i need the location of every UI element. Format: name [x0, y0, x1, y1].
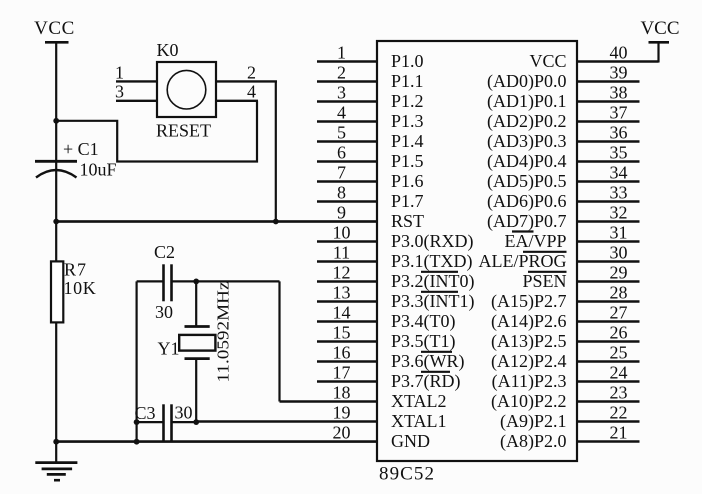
- wire RST net horizontal (rail to pin 9): [56, 220, 377, 222]
- svg-text:P1.5: P1.5: [391, 151, 424, 171]
- pin 31 EA/VPP: [504, 223, 639, 252]
- overline EA (pin 31): [512, 230, 534, 232]
- svg-text:34: 34: [610, 163, 628, 183]
- svg-text:GND: GND: [391, 431, 430, 451]
- svg-text:Y1: Y1: [158, 339, 180, 359]
- svg-text:39: 39: [610, 63, 628, 83]
- svg-text:30: 30: [175, 403, 193, 423]
- ground symbol: [35, 463, 77, 481]
- svg-text:37: 37: [610, 103, 628, 123]
- svg-text:R7: R7: [64, 260, 87, 280]
- svg-text:10uF: 10uF: [80, 160, 117, 180]
- pin 30 ALE/PROG: [478, 243, 639, 272]
- svg-text:(A13)P2.5: (A13)P2.5: [491, 331, 567, 352]
- svg-text:P1.4: P1.4: [391, 131, 424, 151]
- crystal Y1 body: [179, 335, 215, 351]
- svg-text:1: 1: [115, 63, 124, 83]
- svg-text:7: 7: [337, 163, 346, 183]
- svg-text:P3.6(WR): P3.6(WR): [391, 351, 465, 372]
- wire C2 right lead to XTAL2 net: [172, 280, 280, 282]
- svg-text:14: 14: [333, 303, 351, 323]
- svg-text:22: 22: [610, 403, 628, 423]
- resistor R7 body: [51, 261, 63, 322]
- svg-text:3: 3: [337, 83, 346, 103]
- svg-text:3: 3: [115, 82, 124, 102]
- svg-text:K0: K0: [157, 40, 179, 60]
- svg-text:RST: RST: [391, 211, 424, 231]
- svg-text:4: 4: [247, 82, 256, 102]
- svg-text:C2: C2: [154, 242, 175, 262]
- svg-text:4: 4: [337, 103, 346, 123]
- svg-text:(AD3)P0.3: (AD3)P0.3: [487, 131, 567, 152]
- button pin 1 stub: [116, 80, 157, 82]
- pin 11 P3.1(TXD): [317, 243, 473, 273]
- overline PSEN (pin 29): [528, 271, 567, 273]
- node junction C3 left at loop-left: [134, 419, 140, 425]
- svg-text:VCC: VCC: [529, 51, 566, 71]
- node junction ground rail at rail bottom: [53, 439, 59, 445]
- svg-text:38: 38: [610, 83, 628, 103]
- svg-text:29: 29: [610, 263, 628, 283]
- svg-text:EA/VPP: EA/VPP: [504, 231, 566, 251]
- pin 22 (A9)P2.1: [500, 403, 640, 433]
- crystal Y1 top plate: [185, 325, 210, 328]
- pin 18 XTAL2: [280, 383, 447, 412]
- wire oscillator loop left vertical: [136, 281, 138, 441]
- svg-text:(AD5)P0.5: (AD5)P0.5: [487, 171, 567, 192]
- svg-text:(A12)P2.4: (A12)P2.4: [491, 351, 567, 372]
- svg-text:(AD7)P0.7: (AD7)P0.7: [487, 211, 567, 232]
- svg-text:6: 6: [337, 143, 346, 163]
- wire R7 bottom to ground rail: [55, 323, 57, 463]
- svg-text:35: 35: [610, 143, 628, 163]
- svg-text:P3.1(TXD): P3.1(TXD): [391, 251, 473, 272]
- pin 6 P1.5: [317, 143, 424, 172]
- pin 2 P1.1: [317, 63, 424, 92]
- svg-text:11: 11: [333, 243, 350, 263]
- svg-text:10K: 10K: [64, 278, 97, 298]
- svg-text:18: 18: [333, 383, 351, 403]
- pin 28 (A15)P2.7: [491, 283, 640, 313]
- svg-text:31: 31: [610, 223, 628, 243]
- svg-text:(A9)P2.1: (A9)P2.1: [500, 411, 567, 432]
- svg-text:(A8)P2.0: (A8)P2.0: [500, 431, 567, 452]
- push button K0 body: [157, 62, 216, 117]
- pin 26 (A13)P2.5: [491, 323, 640, 353]
- pin 12 P3.2(INT0): [317, 263, 475, 293]
- pin 29 PSEN: [522, 263, 639, 292]
- capacitor C1 bottom plate (arc): [36, 170, 77, 178]
- svg-text:89C52: 89C52: [379, 464, 434, 485]
- svg-text:P1.6: P1.6: [391, 171, 424, 191]
- svg-text:(AD6)P0.6: (AD6)P0.6: [487, 191, 567, 212]
- svg-text:+ C1: + C1: [63, 139, 99, 159]
- wire XTAL2 net vertical and to pin 18: [278, 281, 280, 401]
- pin 19 XTAL1: [196, 403, 446, 432]
- svg-text:32: 32: [610, 203, 628, 223]
- svg-text:XTAL1: XTAL1: [391, 411, 447, 431]
- wire Y1 bottom lead: [195, 359, 197, 423]
- svg-text:(A10)P2.2: (A10)P2.2: [491, 391, 567, 412]
- overline INT1 (pin 13): [421, 291, 458, 293]
- svg-text:2: 2: [247, 63, 256, 83]
- svg-text:10: 10: [333, 223, 351, 243]
- svg-text:15: 15: [333, 323, 351, 343]
- svg-text:13: 13: [333, 283, 351, 303]
- overline RD (pin 17): [421, 371, 450, 373]
- svg-text:(AD4)P0.4: (AD4)P0.4: [487, 151, 567, 172]
- svg-text:C3: C3: [135, 403, 156, 423]
- svg-text:VCC: VCC: [34, 18, 75, 39]
- pin 25 (A12)P2.4: [491, 343, 640, 373]
- svg-text:VCC: VCC: [640, 18, 679, 39]
- svg-text:28: 28: [610, 283, 628, 303]
- svg-text:(AD0)P0.0: (AD0)P0.0: [487, 71, 567, 92]
- IC U1 89C52 body: [377, 41, 577, 461]
- svg-text:40: 40: [610, 43, 628, 63]
- svg-text:5: 5: [337, 123, 346, 143]
- svg-text:RESET: RESET: [156, 121, 211, 141]
- overline WR (pin 16): [421, 351, 452, 353]
- node junction loop-left at ground rail: [134, 439, 140, 445]
- wire pin 40 up to VCC bar: [657, 42, 659, 62]
- pin 37 (AD2)P0.2: [487, 103, 640, 133]
- pin 20 GND: [56, 423, 430, 452]
- wire C2 left lead: [137, 280, 164, 282]
- pin 1 P1.0: [317, 43, 424, 72]
- wire ground rail to pin 20 GND: [56, 441, 377, 443]
- svg-text:23: 23: [610, 383, 628, 403]
- svg-text:(A14)P2.6: (A14)P2.6: [491, 311, 567, 332]
- node junction VCC/button loop at (56,121): [53, 118, 59, 124]
- svg-text:24: 24: [610, 363, 628, 383]
- pin 23 (A10)P2.2: [491, 383, 640, 413]
- pin 16 P3.6(WR): [317, 343, 465, 373]
- pin 3 P1.2: [317, 83, 424, 112]
- pin 13 P3.3(INT1): [317, 283, 475, 313]
- pin 40 VCC: [529, 43, 658, 72]
- svg-text:30: 30: [610, 243, 628, 263]
- svg-text:P1.2: P1.2: [391, 91, 424, 111]
- svg-text:17: 17: [333, 363, 351, 383]
- svg-text:P1.7: P1.7: [391, 191, 424, 211]
- wire button pin 2 down to RST line: [275, 81, 277, 221]
- power symbol VCC (left) bar: [45, 41, 69, 44]
- svg-text:27: 27: [610, 303, 628, 323]
- svg-text:2: 2: [337, 63, 346, 83]
- power symbol VCC (right) bar: [649, 41, 670, 44]
- capacitor C2 plates: [164, 264, 172, 301]
- button pin 3 stub: [116, 100, 157, 102]
- pin 7 P1.6: [317, 163, 424, 192]
- svg-text:8: 8: [337, 183, 346, 203]
- svg-text:36: 36: [610, 123, 628, 143]
- push button K0 cap circle: [167, 70, 206, 109]
- svg-text:11.0592MHz: 11.0592MHz: [214, 281, 233, 383]
- wire C3 left lead: [137, 421, 164, 423]
- svg-text:P3.4(T0): P3.4(T0): [391, 311, 456, 332]
- svg-text:P1.3: P1.3: [391, 111, 424, 131]
- svg-text:(A11)P2.3: (A11)P2.3: [492, 371, 567, 392]
- svg-text:P1.0: P1.0: [391, 51, 424, 71]
- svg-text:(AD1)P0.1: (AD1)P0.1: [487, 91, 567, 112]
- svg-text:30: 30: [155, 302, 173, 322]
- pin 14 P3.4(T0): [317, 303, 456, 333]
- svg-text:9: 9: [337, 203, 346, 223]
- pin 10 P3.0(RXD): [317, 223, 474, 253]
- svg-text:(A15)P2.7: (A15)P2.7: [491, 291, 567, 312]
- crystal Y1 bottom plate: [185, 357, 210, 360]
- button pin 4 stub: [216, 100, 258, 102]
- capacitor C3 plates: [164, 404, 172, 442]
- svg-text:PSEN: PSEN: [522, 271, 566, 291]
- svg-text:P3.5(T1): P3.5(T1): [391, 331, 456, 352]
- svg-text:P1.1: P1.1: [391, 71, 424, 91]
- svg-text:16: 16: [333, 343, 351, 363]
- svg-text:P3.2(INT0): P3.2(INT0): [391, 271, 475, 292]
- pin 17 P3.7(RD): [317, 363, 461, 393]
- pin 38 (AD1)P0.1: [487, 83, 640, 113]
- wire button pin 4 loop to VCC node: [56, 101, 257, 162]
- node junction RST at button pin2 wire: [273, 219, 279, 225]
- pin 36 (AD3)P0.3: [487, 123, 640, 153]
- svg-text:21: 21: [610, 423, 628, 443]
- pin 21 (A8)P2.0: [500, 423, 640, 453]
- node junction RST at rail: [53, 219, 59, 225]
- node junction C2/Y1/XTAL2: [193, 279, 199, 285]
- pin 35 (AD4)P0.4: [487, 143, 640, 173]
- svg-text:P3.7(RD): P3.7(RD): [391, 371, 461, 392]
- svg-text:P3.3(INT1): P3.3(INT1): [391, 291, 475, 312]
- svg-text:25: 25: [610, 343, 628, 363]
- pin 8 P1.7: [317, 183, 424, 212]
- pin 39 (AD0)P0.0: [487, 63, 640, 93]
- pin 5 P1.4: [317, 123, 424, 152]
- svg-text:26: 26: [610, 323, 628, 343]
- pin 9 RST: [56, 203, 424, 232]
- node junction C3/Y1/XTAL1: [193, 419, 199, 425]
- svg-text:(AD2)P0.2: (AD2)P0.2: [487, 111, 567, 132]
- pin 32 (AD7)P0.7: [487, 203, 640, 233]
- svg-text:12: 12: [333, 263, 351, 283]
- svg-text:20: 20: [333, 423, 351, 443]
- wire VCC rail vertical (VCC bar to C1 and RST node): [55, 42, 57, 261]
- svg-text:ALE/PROG: ALE/PROG: [478, 251, 566, 271]
- wire Y1 top lead: [195, 281, 197, 326]
- pin 15 P3.5(T1): [317, 323, 456, 353]
- svg-text:19: 19: [333, 403, 351, 423]
- button pin 2 stub: [216, 80, 277, 82]
- svg-text:1: 1: [337, 43, 346, 63]
- overline INT0 (pin 12): [421, 271, 458, 273]
- pin 24 (A11)P2.3: [492, 363, 640, 393]
- pin 33 (AD6)P0.6: [487, 183, 640, 213]
- svg-text:33: 33: [610, 183, 628, 203]
- wire C3 right lead / XTAL1 net to pin 19: [172, 421, 197, 423]
- capacitor C1 top plate: [35, 160, 77, 163]
- pin 27 (A14)P2.6: [491, 303, 640, 333]
- pin 4 P1.3: [317, 103, 424, 132]
- overline PROG (pin 30): [523, 251, 567, 253]
- pin 34 (AD5)P0.5: [487, 163, 640, 193]
- svg-text:XTAL2: XTAL2: [391, 391, 447, 411]
- svg-text:P3.0(RXD): P3.0(RXD): [391, 231, 474, 252]
